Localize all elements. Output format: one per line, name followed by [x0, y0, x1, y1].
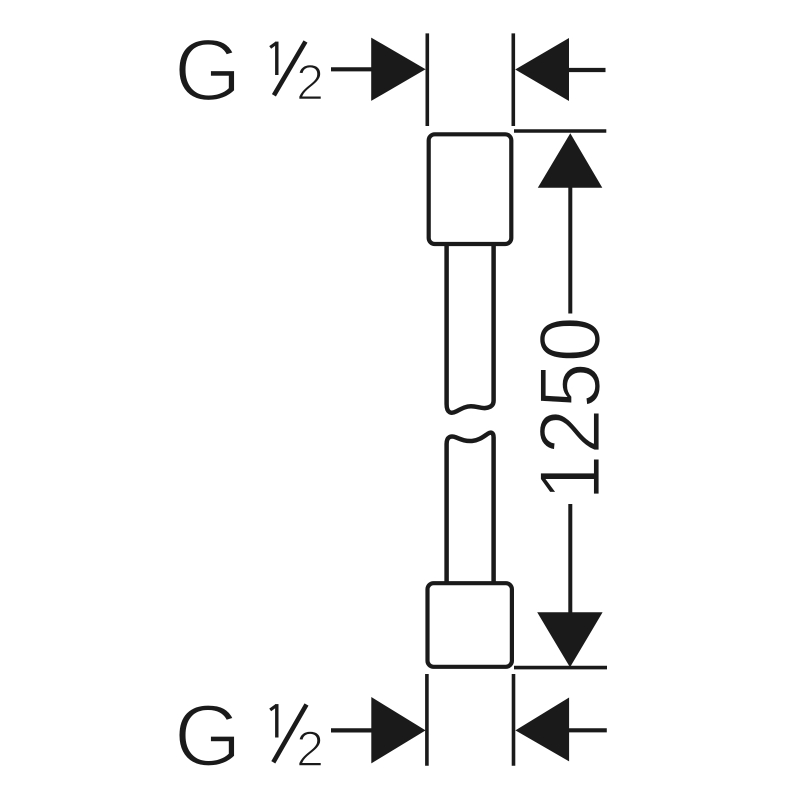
- top-right dimension arrowhead: [515, 38, 569, 101]
- tail line of top-right arrowhead: [569, 68, 606, 72]
- bottom hose nut: [428, 583, 512, 667]
- leader line to bottom-left arrow: [331, 728, 373, 732]
- upper hose section with break: [447, 246, 494, 413]
- svg-text:2: 2: [296, 53, 324, 110]
- fraction slash (bottom): [273, 705, 306, 763]
- bottom-left dimension arrowhead: [371, 697, 425, 763]
- top hose nut: [429, 134, 512, 244]
- down arrowhead of 1250 dimension: [537, 612, 602, 667]
- top-left dimension arrowhead: [371, 38, 425, 101]
- bottom-right dimension arrowhead: [515, 698, 569, 762]
- leader line to top-left arrow: [331, 67, 373, 71]
- svg-text:G: G: [174, 22, 242, 119]
- bottom extension line of 1250 dimension: [514, 666, 607, 670]
- fraction slash (top): [274, 42, 306, 96]
- svg-text:1250: 1250: [522, 316, 618, 501]
- svg-text:G: G: [174, 687, 242, 784]
- bottom-left extension line: [425, 674, 429, 766]
- upper segment of 1250 dimension line: [568, 187, 572, 314]
- top-right extension line: [511, 33, 515, 126]
- tail line of bottom-right arrowhead: [569, 728, 607, 732]
- svg-text:2: 2: [296, 720, 324, 777]
- lower segment of 1250 dimension line: [568, 504, 572, 613]
- top-left extension line: [425, 33, 429, 126]
- up arrowhead of 1250 dimension: [538, 133, 603, 188]
- fraction numerator 1 (top): [275, 42, 278, 75]
- fraction numerator 1 (bottom): [275, 704, 278, 737]
- top extension line of 1250 dimension: [514, 129, 606, 133]
- bottom-right extension line: [512, 674, 516, 766]
- lower hose section with break: [447, 433, 494, 583]
